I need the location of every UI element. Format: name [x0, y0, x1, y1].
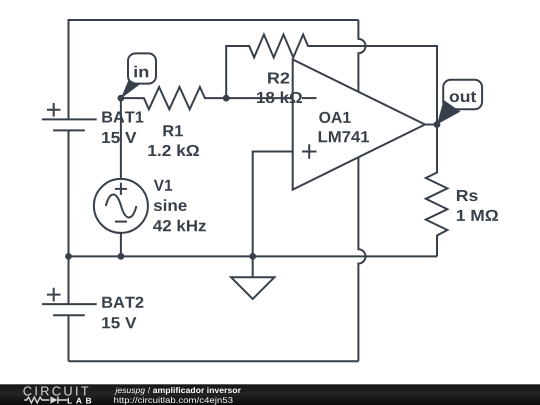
- label V1 sine 42 kHz: [153, 180, 206, 231]
- label R1 1.2 kΩ: [148, 125, 199, 156]
- ground symbol: [231, 256, 274, 299]
- flag in: [121, 53, 156, 98]
- footer bar: [0, 384, 540, 405]
- wire: ground rail (mid): [69, 255, 438, 257]
- label BAT1 15 V: [102, 111, 143, 143]
- wire: V+ supply drop with hop over feedback wire: [358, 20, 365, 92]
- label OA1 LM741: [319, 112, 369, 142]
- footer title: jesuspg / amplificador inversor: [114, 387, 240, 395]
- op-amp OA1 triangle: [293, 60, 425, 190]
- resistor Rs: [426, 125, 448, 257]
- CircuitLab logo word LAB: [68, 398, 92, 404]
- node: ground junction: [249, 253, 256, 260]
- resistor R2 (feedback): [226, 35, 437, 125]
- flag out: [437, 80, 482, 125]
- op-amp non-inverting input plus symbol: [302, 144, 317, 159]
- op-amp inverting input minus symbol: [302, 97, 317, 99]
- CircuitLab logo word CIRCUIT: [23, 386, 88, 395]
- wire: bottom negative rail: [69, 360, 359, 362]
- node: BAT junction on ground rail: [65, 253, 72, 260]
- node: output junction: [434, 121, 441, 128]
- battery BAT2: [42, 256, 97, 361]
- battery BAT1: [42, 103, 97, 130]
- node: inverting input junction: [223, 95, 230, 102]
- label R2 18 kΩ: [257, 72, 302, 103]
- wire: V- supply from op-amp to bottom rail with hop over ground rail: [358, 157, 365, 361]
- wire: top positive supply rail: [69, 20, 359, 119]
- voltage source V1: [94, 99, 148, 257]
- label Rs 1 MΩ: [457, 190, 498, 221]
- resistor R1: [121, 87, 226, 109]
- node: V1- junction on ground rail: [118, 253, 125, 260]
- wire: inverting input wire: [226, 97, 293, 99]
- wire: op-amp output stub: [425, 124, 437, 126]
- node: input junction (V1+/R1/in flag): [118, 95, 125, 102]
- footer url: circuitlab address: [114, 397, 232, 405]
- label BAT2 15 V: [102, 297, 143, 329]
- wire: non-inverting input to ground rail: [253, 152, 293, 257]
- CircuitLab logo resistor zigzag and diode glyph: [24, 396, 67, 403]
- wire: BAT1 negative to ground rail: [68, 130, 70, 256]
